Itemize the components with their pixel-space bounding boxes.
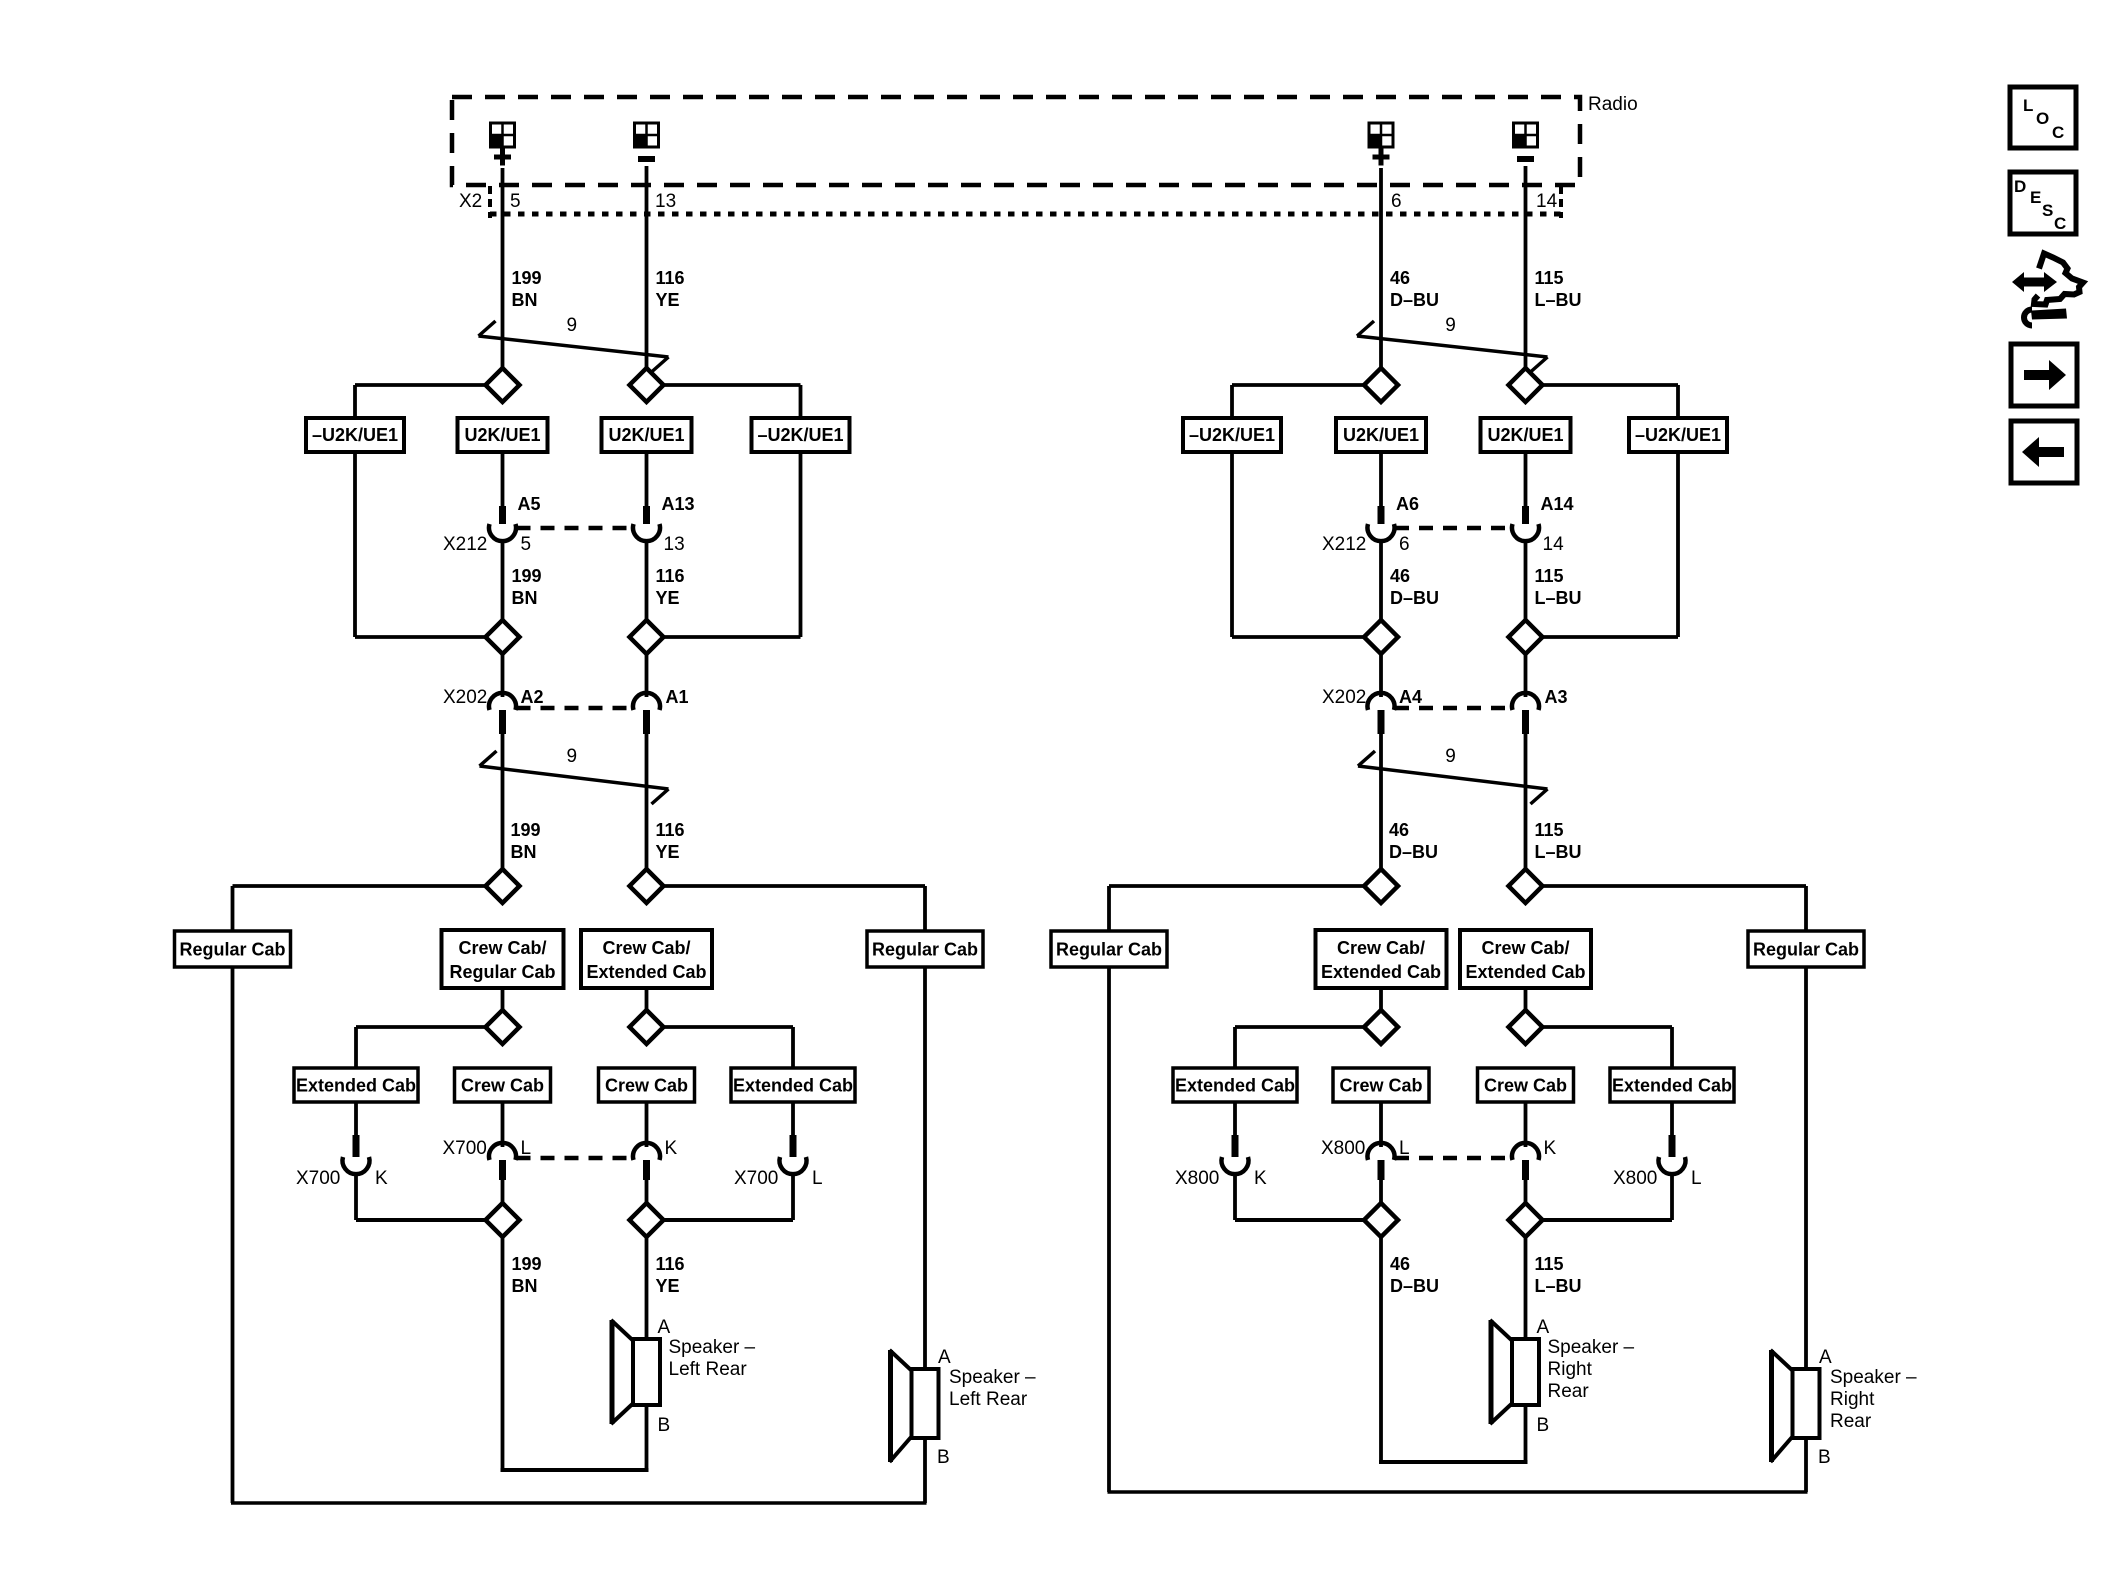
svg-text:Regular Cab: Regular Cab <box>1753 940 1859 960</box>
connector X2 separator (dashed) <box>488 186 492 218</box>
svg-text:115: 115 <box>1535 1254 1564 1274</box>
svg-text:D–BU: D–BU <box>1390 1276 1439 1296</box>
svg-text:L: L <box>1399 1138 1410 1159</box>
svg-text:Crew Cab/: Crew Cab/ <box>458 938 546 958</box>
connector X202 dashed tie line <box>1395 706 1512 711</box>
wire bottom (Speaker - Right Rear) <box>1108 1490 1808 1494</box>
radio terminal pin 6 (quadrant square) <box>1369 123 1393 147</box>
svg-text:Rear: Rear <box>1830 1411 1872 1432</box>
wire Extended Cab right to X800 <box>1670 1102 1674 1135</box>
connector X212 dashed tie line <box>517 526 633 531</box>
connector X212 terminal A13 male pin <box>643 506 650 524</box>
svg-text:Speaker –: Speaker – <box>949 1367 1036 1388</box>
branch wire to Regular Cab (left) <box>1109 886 1365 931</box>
svg-text:A: A <box>658 1317 671 1338</box>
wire 199 below cab box <box>501 988 505 1011</box>
connector X202 terminal A2 male pin <box>499 710 506 734</box>
connector X700 terminal K female cup (mid right) <box>633 1143 660 1160</box>
wire 116 U2K/UE1 to X212 <box>645 452 649 506</box>
svg-text:X700: X700 <box>734 1168 778 1189</box>
wire 116 X212 to splice <box>645 539 649 621</box>
wire X800 outer left down <box>1233 1172 1237 1220</box>
svg-text:K: K <box>375 1168 388 1189</box>
svg-text:D–BU: D–BU <box>1390 290 1439 310</box>
svg-text:116: 116 <box>656 268 685 288</box>
wire label 46 D&#8211;BU to speaker <box>1390 1254 1439 1296</box>
radio terminal pin 14 (quadrant square) <box>1514 123 1538 147</box>
wire Regular Cab left down (Speaker - Left Rear) <box>231 967 235 1503</box>
connector X800 terminal K female cup (outer left) <box>1222 1157 1249 1174</box>
svg-text:A6: A6 <box>1396 494 1419 514</box>
wire Speaker - Left Rear outer B down <box>923 1438 927 1503</box>
svg-text:–U2K/UE1: –U2K/UE1 <box>1635 425 1721 445</box>
radio (dashed outline box) <box>452 97 1580 185</box>
connector X700 terminal K male pin (outer left) <box>353 1135 360 1157</box>
branch wire to Extended Cab (left) <box>356 1027 489 1068</box>
svg-text:B: B <box>1537 1415 1550 1436</box>
svg-text:L: L <box>2023 96 2033 115</box>
wire Regular Cab right down to Speaker - Left Rear outer A <box>923 967 927 1369</box>
speaker Speaker - Left Rear (inner) <box>611 1320 660 1424</box>
wire label 46 D&#8211;BU below X212 <box>1390 566 1439 608</box>
wire 199 X212 to splice <box>501 539 505 621</box>
option box -U2K/UE1 (far left) <box>306 418 404 452</box>
connector X800 terminal K male pin (outer left) <box>1232 1135 1239 1157</box>
option box Regular Cab (right outer, LR) <box>867 931 983 967</box>
svg-text:6: 6 <box>1399 534 1410 555</box>
option box -U2K/UE1 (far left) <box>1183 418 1281 452</box>
svg-text:C: C <box>2054 214 2066 233</box>
icon box DESC <box>2010 172 2076 234</box>
option box Regular Cab (left outer, RR) <box>1051 931 1167 967</box>
option box Crew Cab (115) <box>1478 1068 1574 1102</box>
svg-text:X202: X202 <box>443 687 487 708</box>
branch wire to Extended Cab (right) <box>663 1027 794 1068</box>
svg-text:Right: Right <box>1830 1389 1875 1410</box>
svg-text:9: 9 <box>567 746 578 767</box>
svg-text:K: K <box>665 1138 678 1159</box>
svg-text:13: 13 <box>655 191 676 212</box>
svg-text:13: 13 <box>664 534 685 555</box>
wire 199 to X202 <box>501 653 505 697</box>
svg-text:L–BU: L–BU <box>1535 290 1582 310</box>
option box U2K/UE1 (right) <box>602 418 692 452</box>
svg-text:46: 46 <box>1390 566 1410 586</box>
svg-text:Crew Cab/: Crew Cab/ <box>1481 938 1569 958</box>
wire Crew Cab 199 to X700 <box>501 1102 505 1147</box>
wire 46 from radio pin 6 <box>1379 168 1383 370</box>
wire Crew Cab 46 to X800 <box>1379 1102 1383 1147</box>
option box Crew Cab (116) <box>599 1068 695 1102</box>
branch wire to -U2K/UE1 (left) <box>1232 385 1365 418</box>
svg-text:Extended Cab: Extended Cab <box>296 1076 416 1096</box>
wire Extended Cab left to X800 <box>1233 1102 1237 1135</box>
option box U2K/UE1 (left) <box>458 418 548 452</box>
option box Crew Cab/Extended Cab (115 L-BU) <box>1460 930 1591 988</box>
option box Extended Cab (right) <box>731 1068 855 1102</box>
splice diamond on 46 (cab) <box>1364 869 1398 903</box>
svg-text:A: A <box>1537 1317 1550 1338</box>
svg-text:5: 5 <box>521 534 532 555</box>
connector X212 terminal A5 male pin <box>499 506 506 524</box>
branch wire to Extended Cab (left) <box>1235 1027 1367 1068</box>
connector X2 dotted boundary line <box>490 212 1561 217</box>
twisted-pair crossing 2, 9 turns <box>1358 751 1548 804</box>
connector X212 terminal A6 male pin <box>1378 506 1385 524</box>
branch wire to Extended Cab (right) <box>1542 1027 1673 1068</box>
wire 115 to X202 <box>1524 653 1528 697</box>
svg-text:Crew Cab: Crew Cab <box>461 1076 544 1096</box>
wire label 115 L&#8211;BU above cab splice <box>1535 820 1582 862</box>
wire 46 to X202 <box>1379 653 1383 697</box>
svg-text:Extended Cab: Extended Cab <box>1175 1076 1295 1096</box>
svg-text:A13: A13 <box>662 494 695 514</box>
wire 199 U2K/UE1 to X212 <box>501 452 505 506</box>
option box Crew Cab (199) <box>455 1068 551 1102</box>
wire label 116 YE below X212 <box>656 566 685 608</box>
connector X202 terminal A4 male pin <box>1378 710 1385 734</box>
svg-text:X800: X800 <box>1613 1168 1657 1189</box>
wire -U2K/UE1 left loop <box>1232 452 1365 637</box>
svg-text:X2: X2 <box>459 191 482 212</box>
icon wrench with arrows (related repair) <box>2012 254 2083 326</box>
svg-text:X700: X700 <box>296 1168 340 1189</box>
wire bottom (Speaker - Left Rear) <box>231 1501 927 1505</box>
option box U2K/UE1 (left) <box>1336 418 1426 452</box>
connector X700 terminal L male pin (outer right) <box>790 1135 797 1157</box>
splice diamond on 116 (final) <box>630 1203 664 1237</box>
wire -U2K/UE1 right loop <box>663 452 801 637</box>
svg-text:O: O <box>2036 109 2049 128</box>
svg-text:YE: YE <box>656 842 680 862</box>
svg-text:L–BU: L–BU <box>1535 842 1582 862</box>
svg-text:YE: YE <box>656 290 680 310</box>
splice diamond on 46 (final) <box>1364 1203 1398 1237</box>
svg-text:A3: A3 <box>1545 687 1568 707</box>
connector X202 dashed tie line <box>517 706 633 711</box>
wire 115 below cab box <box>1524 988 1528 1011</box>
connector X202 terminal A3 male pin <box>1522 710 1529 734</box>
speaker Speaker - Right Rear (outer) <box>1771 1350 1820 1462</box>
svg-text:L–BU: L–BU <box>1535 1276 1582 1296</box>
wire label 116 YE <box>656 268 685 310</box>
branch wire to Regular Cab (left) <box>233 886 487 931</box>
svg-text:Crew Cab: Crew Cab <box>1339 1076 1422 1096</box>
svg-text:A1: A1 <box>666 687 689 707</box>
option box Extended Cab (left) <box>294 1068 418 1102</box>
wire Speaker - Left Rear negative loop (U) <box>501 1235 649 1470</box>
wire Regular Cab right down to Speaker - Right Rear outer A <box>1804 967 1808 1369</box>
branch wire to -U2K/UE1 (right) <box>663 385 801 418</box>
svg-text:116: 116 <box>656 1254 685 1274</box>
svg-text:Left Rear: Left Rear <box>949 1389 1028 1410</box>
svg-text:BN: BN <box>511 842 537 862</box>
svg-text:116: 116 <box>656 566 685 586</box>
wire label 199 BN to speaker <box>512 1254 542 1296</box>
splice diamond on 116 <box>630 368 664 402</box>
svg-text:5: 5 <box>510 191 521 212</box>
branch wire outer-right to final splice <box>1542 1218 1673 1222</box>
connector X202 terminal A4 female cup <box>1367 693 1394 710</box>
svg-text:U2K/UE1: U2K/UE1 <box>1343 425 1419 445</box>
connector X202 terminal A3 female cup <box>1512 693 1539 710</box>
splice diamond on 199 (final) <box>486 1203 520 1237</box>
svg-text:K: K <box>1544 1138 1557 1159</box>
svg-text:46: 46 <box>1390 268 1410 288</box>
svg-text:9: 9 <box>1445 315 1456 336</box>
wire X700 mid pins down <box>503 1180 647 1204</box>
splice diamond on 115 (mid) <box>1509 620 1543 654</box>
svg-text:A: A <box>1819 1347 1832 1368</box>
svg-text:B: B <box>937 1447 950 1468</box>
svg-text:Crew Cab/: Crew Cab/ <box>602 938 690 958</box>
wire -U2K/UE1 right loop <box>1542 452 1679 637</box>
wire Extended Cab right to X700 <box>791 1102 795 1135</box>
wire 116 below cab box <box>645 988 649 1011</box>
wire label 46 D&#8211;BU <box>1390 268 1439 310</box>
svg-text:Regular Cab: Regular Cab <box>449 962 555 982</box>
branch wire outer-left to final splice <box>1235 1218 1365 1222</box>
svg-text:B: B <box>658 1415 671 1436</box>
connector X212 terminal A5 female cup <box>489 524 516 541</box>
wire Crew Cab 116 to X700 <box>645 1102 649 1147</box>
svg-text:A: A <box>938 1347 951 1368</box>
polarity - (pin 14) <box>1517 156 1534 162</box>
svg-text:A5: A5 <box>518 494 541 514</box>
svg-text:–U2K/UE1: –U2K/UE1 <box>312 425 398 445</box>
wire X700 outer right down <box>791 1172 795 1220</box>
connector X700 terminal K male pin (mid right) <box>643 1160 650 1180</box>
svg-text:Regular Cab: Regular Cab <box>872 940 978 960</box>
speaker Speaker - Right Rear (inner) <box>1490 1320 1539 1424</box>
svg-text:U2K/UE1: U2K/UE1 <box>1487 425 1563 445</box>
wire label 115 L&#8211;BU to speaker <box>1535 1254 1582 1296</box>
connector X212 terminal A14 female cup <box>1512 524 1539 541</box>
svg-text:S: S <box>2042 201 2053 220</box>
connector X800 dashed tie line <box>1395 1156 1512 1161</box>
wire label 46 D&#8211;BU above cab splice <box>1389 820 1438 862</box>
svg-text:X212: X212 <box>443 534 487 555</box>
connector X800 terminal L male pin (mid left) <box>1378 1160 1385 1180</box>
connector X700 terminal L female cup (mid left) <box>489 1143 516 1160</box>
splice diamond on 115 (final) <box>1509 1203 1543 1237</box>
svg-text:BN: BN <box>512 1276 538 1296</box>
svg-text:D–BU: D–BU <box>1389 842 1438 862</box>
option box U2K/UE1 (right) <box>1481 418 1571 452</box>
svg-text:199: 199 <box>512 566 542 586</box>
polarity + (pin 6) <box>1373 149 1390 166</box>
wire 116 from radio pin 13 <box>645 166 649 370</box>
svg-text:199: 199 <box>512 1254 542 1274</box>
splice diamond on 199 (mid) <box>486 620 520 654</box>
splice diamond on 199 (ext) <box>486 1010 520 1044</box>
wire label 115 L&#8211;BU below X212 <box>1535 566 1582 608</box>
option box Crew Cab/Extended Cab (46 D-BU) <box>1316 930 1447 988</box>
label Speaker - Left Rear (outer) <box>949 1367 1036 1410</box>
svg-text:L: L <box>521 1138 532 1159</box>
svg-text:U2K/UE1: U2K/UE1 <box>608 425 684 445</box>
wire X700 outer left down <box>354 1172 358 1220</box>
splice diamond on 116 (ext) <box>630 1010 664 1044</box>
wire 115 X202 down <box>1524 734 1528 870</box>
connector X2 right separator (dashed) <box>1559 186 1563 218</box>
wire label 116 YE above cab splice <box>656 820 685 862</box>
svg-text:46: 46 <box>1390 1254 1410 1274</box>
svg-text:A14: A14 <box>1541 494 1574 514</box>
wire 116 X202 down <box>645 734 649 870</box>
svg-text:Speaker –: Speaker – <box>669 1337 756 1358</box>
svg-text:Regular Cab: Regular Cab <box>1056 940 1162 960</box>
wire 46 U2K/UE1 to X212 <box>1379 452 1383 506</box>
splice diamond on 46 (mid) <box>1364 620 1398 654</box>
connector X700 terminal L male pin (mid left) <box>499 1160 506 1180</box>
svg-text:Crew Cab/: Crew Cab/ <box>1337 938 1425 958</box>
svg-text:9: 9 <box>567 315 578 336</box>
branch wire to -U2K/UE1 (left) <box>355 385 487 418</box>
splice diamond on 199 (cab) <box>486 869 520 903</box>
splice diamond on 115 <box>1509 368 1543 402</box>
icon box back arrow <box>2011 421 2077 483</box>
svg-text:Extended Cab: Extended Cab <box>1612 1076 1732 1096</box>
connector X700 terminal L female cup (outer right) <box>780 1157 807 1174</box>
option box Extended Cab (right) <box>1610 1068 1734 1102</box>
option box Crew Cab/Regular Cab (199 BN) <box>442 930 564 988</box>
label Speaker - Left Rear (inner) <box>669 1337 756 1380</box>
svg-text:–U2K/UE1: –U2K/UE1 <box>1189 425 1275 445</box>
branch wire to Regular Cab (right) <box>1542 886 1807 931</box>
connector X800 terminal L male pin (outer right) <box>1669 1135 1676 1157</box>
splice diamond on 115 (ext) <box>1509 1010 1543 1044</box>
splice diamond on 46 (ext) <box>1364 1010 1398 1044</box>
speaker Speaker - Left Rear (outer) <box>890 1350 939 1462</box>
wire 46 X202 down <box>1379 734 1383 870</box>
wire 199 from radio pin 5 <box>501 168 505 370</box>
splice diamond on 116 (mid) <box>630 620 664 654</box>
svg-text:U2K/UE1: U2K/UE1 <box>464 425 540 445</box>
icon box forward arrow <box>2011 344 2077 406</box>
wire to Speaker - Left Rear terminal A <box>645 1235 649 1340</box>
branch wire outer-left to final splice <box>356 1218 487 1222</box>
option box Crew Cab (46) <box>1333 1068 1429 1102</box>
svg-text:Crew Cab: Crew Cab <box>605 1076 688 1096</box>
svg-text:–U2K/UE1: –U2K/UE1 <box>757 425 843 445</box>
radio terminal pin 13 (quadrant square) <box>635 123 659 147</box>
svg-text:199: 199 <box>512 268 542 288</box>
wire Speaker - Right Rear negative loop (U) <box>1379 1235 1528 1462</box>
svg-text:L–BU: L–BU <box>1535 588 1582 608</box>
wire 116 to X202 <box>645 653 649 697</box>
polarity - (pin 13) <box>638 156 655 162</box>
option box -U2K/UE1 (far right) <box>752 418 850 452</box>
connector X212 terminal A13 female cup <box>633 524 660 541</box>
svg-text:A2: A2 <box>521 687 544 707</box>
splice diamond on 116 (cab) <box>630 869 664 903</box>
branch wire to Regular Cab (right) <box>663 886 926 931</box>
svg-text:X800: X800 <box>1321 1138 1365 1159</box>
svg-text:D: D <box>2014 177 2026 196</box>
svg-text:Extended Cab: Extended Cab <box>1321 962 1441 982</box>
option box Regular Cab (left outer, LR) <box>175 931 291 967</box>
svg-text:6: 6 <box>1391 191 1402 212</box>
connector X202 terminal A1 female cup <box>633 693 660 710</box>
wire X800 mid pins down <box>1381 1180 1526 1204</box>
option box -U2K/UE1 (far right) <box>1629 418 1727 452</box>
connector X800 terminal L female cup (mid left) <box>1368 1143 1395 1160</box>
svg-text:Extended Cab: Extended Cab <box>1465 962 1585 982</box>
wire X800 outer right down <box>1670 1172 1674 1220</box>
wire label 199 BN above cab splice <box>511 820 541 862</box>
wire Regular Cab left down (Speaker - Right Rear) <box>1107 967 1111 1492</box>
option box Crew Cab/Extended Cab (116 YE) <box>581 930 712 988</box>
wire label 199 BN below X212 <box>512 566 542 608</box>
svg-text:14: 14 <box>1543 534 1565 555</box>
svg-text:Left Rear: Left Rear <box>669 1359 748 1380</box>
svg-text:BN: BN <box>512 588 538 608</box>
wire label 116 YE to speaker <box>656 1254 685 1296</box>
connector X202 terminal A1 male pin <box>643 710 650 734</box>
label Speaker - Right Rear (inner) <box>1548 1337 1635 1402</box>
svg-text:L: L <box>812 1168 823 1189</box>
svg-text:YE: YE <box>656 1276 680 1296</box>
branch wire outer-right to final splice <box>663 1218 794 1222</box>
svg-text:46: 46 <box>1389 820 1409 840</box>
svg-text:Crew Cab: Crew Cab <box>1484 1076 1567 1096</box>
connector X212 dashed tie line <box>1395 526 1512 531</box>
connector X700 terminal K female cup (outer left) <box>343 1157 370 1174</box>
wire Speaker - Right Rear outer B down <box>1804 1438 1808 1492</box>
wire label 115 L&#8211;BU <box>1535 268 1582 310</box>
splice diamond on 46 <box>1364 368 1398 402</box>
wire label 199 BN <box>512 268 542 310</box>
svg-text:X700: X700 <box>443 1138 487 1159</box>
twisted-pair crossing, 9 turns <box>479 321 669 372</box>
connector X700 dashed tie line <box>517 1156 633 1161</box>
svg-text:Extended Cab: Extended Cab <box>586 962 706 982</box>
svg-text:115: 115 <box>1535 268 1564 288</box>
connector X800 terminal K male pin (mid right) <box>1522 1160 1529 1180</box>
svg-text:L: L <box>1691 1168 1702 1189</box>
wire 46 below cab box <box>1379 988 1383 1011</box>
connector X212 terminal A6 female cup <box>1367 524 1394 541</box>
wire Extended Cab left to X700 <box>354 1102 358 1135</box>
label Speaker - Right Rear (outer) <box>1830 1367 1917 1432</box>
svg-text:Speaker –: Speaker – <box>1548 1337 1635 1358</box>
svg-text:9: 9 <box>1445 746 1456 767</box>
svg-text:199: 199 <box>511 820 541 840</box>
connector X800 terminal K female cup (mid right) <box>1512 1143 1539 1160</box>
svg-text:Rear: Rear <box>1548 1381 1590 1402</box>
branch wire to -U2K/UE1 (right) <box>1542 385 1679 418</box>
wire 115 X212 to splice <box>1524 539 1528 621</box>
svg-text:X800: X800 <box>1175 1168 1219 1189</box>
polarity + (pin 5) <box>494 149 511 166</box>
wire Crew Cab 115 to X800 <box>1524 1102 1528 1147</box>
splice diamond on 199 <box>486 368 520 402</box>
svg-text:A4: A4 <box>1399 687 1422 707</box>
connector X202 terminal A2 female cup <box>489 693 516 710</box>
connector X212 terminal A14 male pin <box>1522 506 1529 524</box>
svg-text:Speaker –: Speaker – <box>1830 1367 1917 1388</box>
wire 115 from radio pin 14 <box>1524 166 1528 370</box>
svg-text:14: 14 <box>1536 191 1558 212</box>
svg-text:E: E <box>2030 188 2041 207</box>
svg-text:115: 115 <box>1535 820 1564 840</box>
svg-text:K: K <box>1254 1168 1267 1189</box>
wire to Speaker - Right Rear terminal A <box>1524 1235 1528 1340</box>
svg-text:Right: Right <box>1548 1359 1593 1380</box>
icon box LOC <box>2010 87 2076 148</box>
option box Regular Cab (right outer, RR) <box>1748 931 1864 967</box>
